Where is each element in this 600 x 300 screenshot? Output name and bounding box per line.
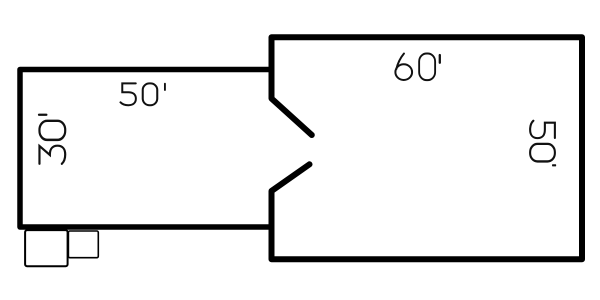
dimension label 60' (right room top) xyxy=(395,54,439,81)
dimension label 50' (right room, rotated) xyxy=(530,121,556,166)
left room outline xyxy=(20,70,272,228)
step rectangle small xyxy=(68,231,98,258)
right room outline with door notch xyxy=(272,37,583,259)
dimension label 50' (left room top) xyxy=(120,83,164,105)
dimension label 30' (left room, rotated) xyxy=(39,115,65,164)
step rectangle large xyxy=(25,230,68,266)
